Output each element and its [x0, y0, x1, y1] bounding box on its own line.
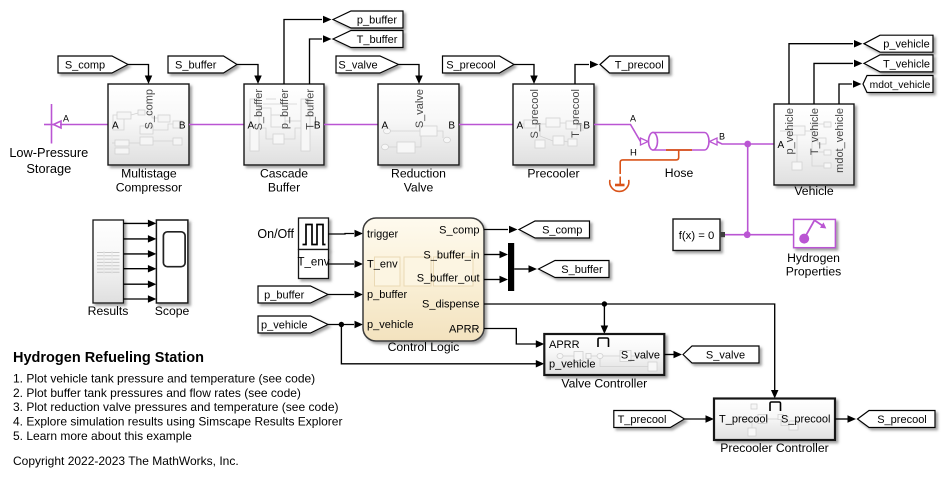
wire On/Off to Control Logic trigger — [328, 233, 354, 236]
svg-text:1. Plot vehicle tank pressure: 1. Plot vehicle tank pressure and temper… — [13, 371, 315, 385]
icon pulse in Valve Controller — [598, 338, 609, 347]
wire Control Logic S_buffer_out to mux — [484, 279, 500, 281]
wire S_dispense branch to Valve Controller — [603, 304, 605, 326]
svg-text:S_buffer_in: S_buffer_in — [423, 250, 479, 262]
svg-text:f(x) = 0: f(x) = 0 — [679, 230, 714, 242]
svg-text:T_precool: T_precool — [570, 89, 582, 138]
wire Control Logic APRR to Valve Controller — [484, 329, 536, 345]
tag From S_precool — [443, 56, 515, 73]
sketch Multistage Compressor interior — [112, 110, 182, 154]
wire Multistage Compressor B to Cascade Buffer A — [189, 124, 244, 126]
wire Hose H to ground (orange) — [620, 150, 679, 174]
svg-text:Reduction: Reduction — [391, 166, 446, 180]
svg-text:T_env: T_env — [367, 259, 398, 271]
svg-text:A: A — [112, 120, 119, 131]
wire T_precool tag to Precooler Controller — [685, 418, 706, 420]
svg-text:Copyright 2022-2023 The MathWo: Copyright 2022-2023 The MathWorks, Inc. — [13, 454, 239, 468]
tag From S_comp — [58, 56, 128, 73]
svg-text:5. Learn more about this examp: 5. Learn more about this example — [13, 429, 192, 443]
svg-text:S_valve: S_valve — [621, 349, 660, 361]
port nub solver — [720, 232, 725, 237]
svg-text:A: A — [63, 114, 69, 124]
svg-text:p_vehicle: p_vehicle — [367, 319, 413, 331]
block Scope — [156, 220, 188, 303]
svg-text:Cascade: Cascade — [260, 166, 308, 180]
icon square wave — [303, 225, 326, 245]
svg-text:T_env: T_env — [298, 257, 330, 269]
svg-text:Hydrogen: Hydrogen — [787, 251, 840, 265]
svg-text:mdot_vehicle: mdot_vehicle — [870, 80, 931, 91]
svg-text:S_dispense: S_dispense — [422, 298, 480, 310]
svg-text:p_buffer: p_buffer — [367, 289, 408, 301]
tag From S_buffer — [168, 56, 237, 73]
svg-text:B: B — [448, 120, 455, 131]
connector Low-Pressure Storage — [44, 104, 61, 144]
svg-text:p_buffer: p_buffer — [279, 89, 291, 130]
sketch Precooler interior — [517, 118, 583, 148]
icon pulse in Precooler Controller — [770, 402, 781, 411]
icon gas properties — [800, 220, 827, 243]
wire p_buffer tag to Control Logic — [328, 294, 354, 296]
tag Goto p_buffer — [333, 11, 403, 28]
tag From S_valve — [336, 56, 399, 73]
svg-text:S_comp: S_comp — [144, 89, 156, 129]
svg-text:Scope: Scope — [155, 304, 190, 318]
block Reduction Valve — [378, 84, 459, 165]
svg-text:T_buffer: T_buffer — [357, 34, 398, 46]
svg-text:S_precool: S_precool — [877, 414, 927, 426]
tag Goto S_buffer out — [539, 261, 610, 278]
port H highlight on Hose — [666, 149, 692, 151]
svg-text:S_precool: S_precool — [529, 89, 541, 139]
icon Scope screen — [163, 232, 185, 267]
svg-text:S_valve: S_valve — [414, 89, 426, 128]
svg-text:Multistage: Multistage — [121, 166, 177, 180]
wire solver to Hydrogen Properties — [725, 234, 795, 236]
svg-text:Hydrogen Refueling Station: Hydrogen Refueling Station — [13, 350, 204, 366]
svg-text:B: B — [583, 120, 590, 131]
svg-text:Buffer: Buffer — [268, 181, 300, 195]
ground symbol (orange reservoir) — [610, 177, 629, 192]
junction S_dispense branch — [602, 301, 607, 306]
tag From T_precool source — [614, 411, 685, 428]
block Hydrogen Properties — [794, 219, 836, 247]
wire p_vehicle branch to Valve Controller — [341, 325, 536, 364]
svg-text:T_vehicle: T_vehicle — [809, 108, 821, 155]
wire Precooler T_precool to T_precool tag — [575, 65, 589, 85]
wire Results to Scope signal 3 — [124, 253, 149, 255]
svg-text:B: B — [314, 120, 321, 131]
sketch Reduction Valve interior — [382, 126, 451, 153]
svg-text:T_vehicle: T_vehicle — [883, 58, 930, 70]
svg-text:S_comp: S_comp — [439, 225, 479, 237]
block Valve Controller — [544, 334, 664, 375]
wire Results to Scope signal 5 — [124, 283, 149, 285]
svg-text:Control Logic: Control Logic — [388, 340, 460, 354]
tag Goto S_valve out — [683, 346, 759, 363]
tag Goto S_precool out — [858, 411, 936, 428]
svg-text:H: H — [630, 148, 637, 159]
junction solver net — [744, 231, 751, 238]
svg-text:APRR: APRR — [549, 339, 580, 351]
wire S_precool tag to Precooler — [514, 65, 534, 77]
sketch Results interior rows — [97, 253, 120, 273]
tag Goto T_precool — [600, 56, 669, 73]
svg-text:Results: Results — [88, 304, 129, 318]
block T_env constant — [299, 250, 329, 279]
svg-text:Valve Controller: Valve Controller — [561, 377, 647, 391]
svg-text:T_precool: T_precool — [719, 414, 768, 426]
svg-text:4. Explore simulation results: 4. Explore simulation results using Sims… — [13, 415, 342, 429]
svg-text:A: A — [630, 114, 636, 124]
svg-text:p_vehicle: p_vehicle — [784, 108, 796, 154]
wire T_env to Control Logic — [328, 263, 354, 265]
tag From p_vehicle source — [258, 316, 328, 333]
sketch Cascade Buffer interior — [250, 99, 310, 151]
wire Valve Controller to S_valve tag — [664, 354, 673, 356]
svg-text:S_valve: S_valve — [338, 59, 377, 71]
sketch Control Logic inner charts — [375, 257, 474, 286]
wire Cascade Buffer p_buffer to p_buffer tag — [284, 20, 322, 85]
wire Control Logic S_dispense to Precooler Controller — [484, 304, 775, 391]
svg-text:p_vehicle: p_vehicle — [549, 358, 595, 370]
wire Reduction Valve B to Precooler A — [459, 124, 513, 126]
svg-text:3. Plot reduction valve pressu: 3. Plot reduction valve pressures and te… — [13, 400, 339, 414]
svg-text:On/Off: On/Off — [257, 227, 294, 241]
svg-text:Low-Pressure: Low-Pressure — [9, 145, 88, 160]
junction hose-vehicle node — [744, 141, 751, 148]
wire Control Logic S_buffer_in to mux — [484, 254, 500, 256]
svg-text:Compressor: Compressor — [116, 181, 182, 195]
svg-text:Properties: Properties — [786, 265, 842, 279]
wire junction down to properties net — [747, 144, 749, 235]
svg-text:S_valve: S_valve — [706, 349, 745, 361]
svg-text:Vehicle: Vehicle — [794, 184, 834, 198]
block Multistage Compressor — [108, 84, 189, 165]
block Control Logic — [363, 218, 484, 341]
svg-text:p_vehicle: p_vehicle — [261, 319, 307, 331]
tag Goto mdot_vehicle — [863, 76, 933, 93]
wire Hose B to Vehicle A — [717, 142, 774, 145]
svg-text:Hose: Hose — [665, 166, 694, 180]
svg-text:S_precool: S_precool — [781, 414, 831, 426]
svg-text:p_buffer: p_buffer — [357, 14, 398, 26]
block On/Off pulse generator — [299, 218, 329, 250]
tag Goto S_comp out — [519, 221, 590, 238]
block Vehicle — [774, 104, 854, 185]
svg-text:mdot_vehicle: mdot_vehicle — [834, 108, 846, 173]
svg-text:S_buffer: S_buffer — [561, 264, 603, 276]
wire Results to Scope signal 2 — [124, 238, 149, 240]
svg-text:S_buffer: S_buffer — [253, 89, 265, 131]
wire Vehicle p_vehicle to p_vehicle tag — [789, 44, 853, 104]
svg-text:trigger: trigger — [367, 229, 399, 241]
port arrow Hose B — [710, 138, 718, 145]
wire Cascade Buffer B to Reduction Valve A — [324, 124, 378, 126]
svg-text:T_precool: T_precool — [618, 414, 667, 426]
mux bus creator — [508, 243, 514, 291]
wire Low-Pressure Storage to Multistage Compressor A — [60, 124, 108, 126]
svg-text:Storage: Storage — [26, 161, 71, 176]
wire Cascade Buffer T_buffer to T_buffer tag — [310, 39, 323, 84]
svg-text:S_buffer_out: S_buffer_out — [417, 272, 480, 284]
svg-text:APRR: APRR — [449, 323, 480, 335]
svg-text:A: A — [248, 120, 255, 131]
svg-text:S_buffer: S_buffer — [175, 59, 217, 71]
svg-text:B: B — [719, 132, 725, 142]
wire Precooler B to Hose A — [594, 125, 641, 142]
svg-text:A: A — [778, 140, 785, 151]
wire Results to Scope signal 1 — [124, 222, 149, 224]
sketch Valve Controller interior — [557, 351, 657, 372]
svg-text:B: B — [179, 120, 186, 131]
wire S_buffer tag to Cascade Buffer — [237, 65, 258, 77]
tag Goto p_vehicle — [864, 35, 933, 52]
svg-text:S_comp: S_comp — [65, 59, 105, 71]
block Precooler Controller — [714, 399, 835, 441]
tag Goto T_buffer — [333, 31, 403, 48]
sketch Vehicle interior — [780, 122, 831, 170]
wire p_vehicle tag to Control Logic — [328, 324, 354, 326]
block Cascade Buffer — [244, 84, 324, 165]
wire S_comp tag to Multistage Compressor — [128, 65, 149, 77]
wire Vehicle T_vehicle to T_vehicle tag — [814, 63, 853, 104]
wire mux to S_buffer tag — [514, 268, 528, 270]
port arrow Hose A — [641, 138, 649, 145]
svg-text:Valve: Valve — [404, 181, 434, 195]
block Hose (cylinder) — [649, 133, 709, 151]
block Precooler — [513, 84, 594, 165]
svg-text:T_precool: T_precool — [615, 59, 664, 71]
wire Results to Scope signal 4 — [124, 268, 149, 270]
tag Goto T_vehicle — [864, 55, 933, 72]
wire Precooler Controller to S_precool tag — [835, 418, 848, 420]
svg-text:2. Plot buffer tank pressures: 2. Plot buffer tank pressures and flow r… — [13, 386, 301, 400]
tag From p_buffer source — [258, 286, 328, 303]
svg-text:A: A — [382, 120, 389, 131]
wire Vehicle mdot_vehicle to mdot_vehicle tag — [839, 84, 852, 104]
sketch Precooler Controller interior — [742, 404, 798, 436]
junction p_vehicle branch — [339, 322, 344, 327]
svg-text:A: A — [517, 120, 524, 131]
wire Control Logic S_comp to S_comp tag — [484, 229, 508, 231]
svg-text:p_vehicle: p_vehicle — [883, 39, 929, 51]
svg-text:S_comp: S_comp — [542, 224, 582, 236]
block Results — [93, 220, 124, 303]
svg-text:Precooler Controller: Precooler Controller — [720, 441, 828, 455]
wire S_valve tag to Reduction Valve — [399, 65, 420, 77]
block Solver Configuration f(x)=0 — [673, 219, 720, 251]
svg-text:Precooler: Precooler — [527, 166, 579, 180]
svg-text:S_precool: S_precool — [446, 59, 496, 71]
wire Results to Scope signal 6 — [124, 298, 149, 300]
svg-text:p_buffer: p_buffer — [264, 289, 305, 301]
